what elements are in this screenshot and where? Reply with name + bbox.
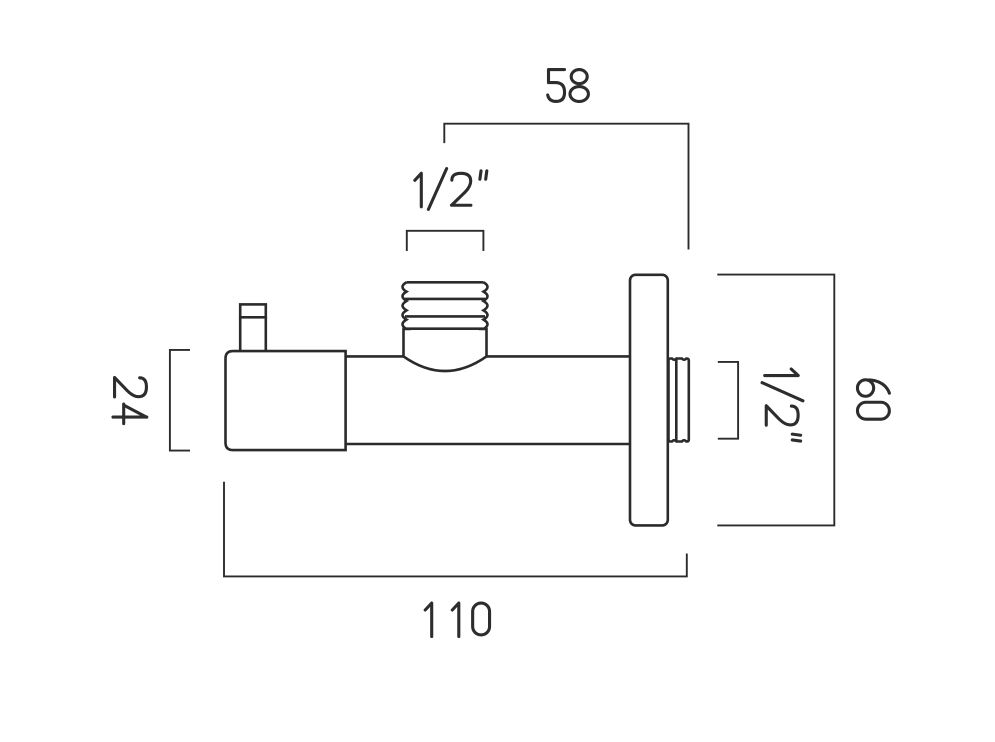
threaded inlet connector bbox=[403, 282, 407, 356]
threads horizontal lines bbox=[404, 282, 486, 328]
handle stem bbox=[240, 317, 266, 351]
pipe body horizontal lines bbox=[346, 356, 630, 444]
dimension 24 bracket bbox=[170, 350, 190, 451]
label 58 bbox=[548, 70, 589, 102]
outlet divider line bbox=[675, 358, 678, 442]
inlet bottom arc bbox=[404, 356, 487, 371]
handle cap bbox=[240, 304, 266, 317]
label 1/2 top bbox=[415, 169, 487, 210]
dimension 110 bracket bbox=[224, 482, 687, 577]
label 110 bbox=[425, 603, 489, 637]
label 60 rotated bbox=[857, 380, 889, 419]
label 1/2 right rotated bbox=[762, 369, 803, 441]
dimension 1/2 right bracket bbox=[718, 362, 738, 439]
valve body block bbox=[226, 351, 346, 450]
wall flange bbox=[630, 275, 668, 526]
dimension 1/2 top bracket bbox=[407, 231, 484, 251]
threaded outlet bbox=[669, 359, 689, 442]
dimension 60 bracket bbox=[717, 275, 834, 526]
label 24 left rotated bbox=[113, 378, 147, 424]
dimension 58 bracket bbox=[444, 124, 688, 250]
